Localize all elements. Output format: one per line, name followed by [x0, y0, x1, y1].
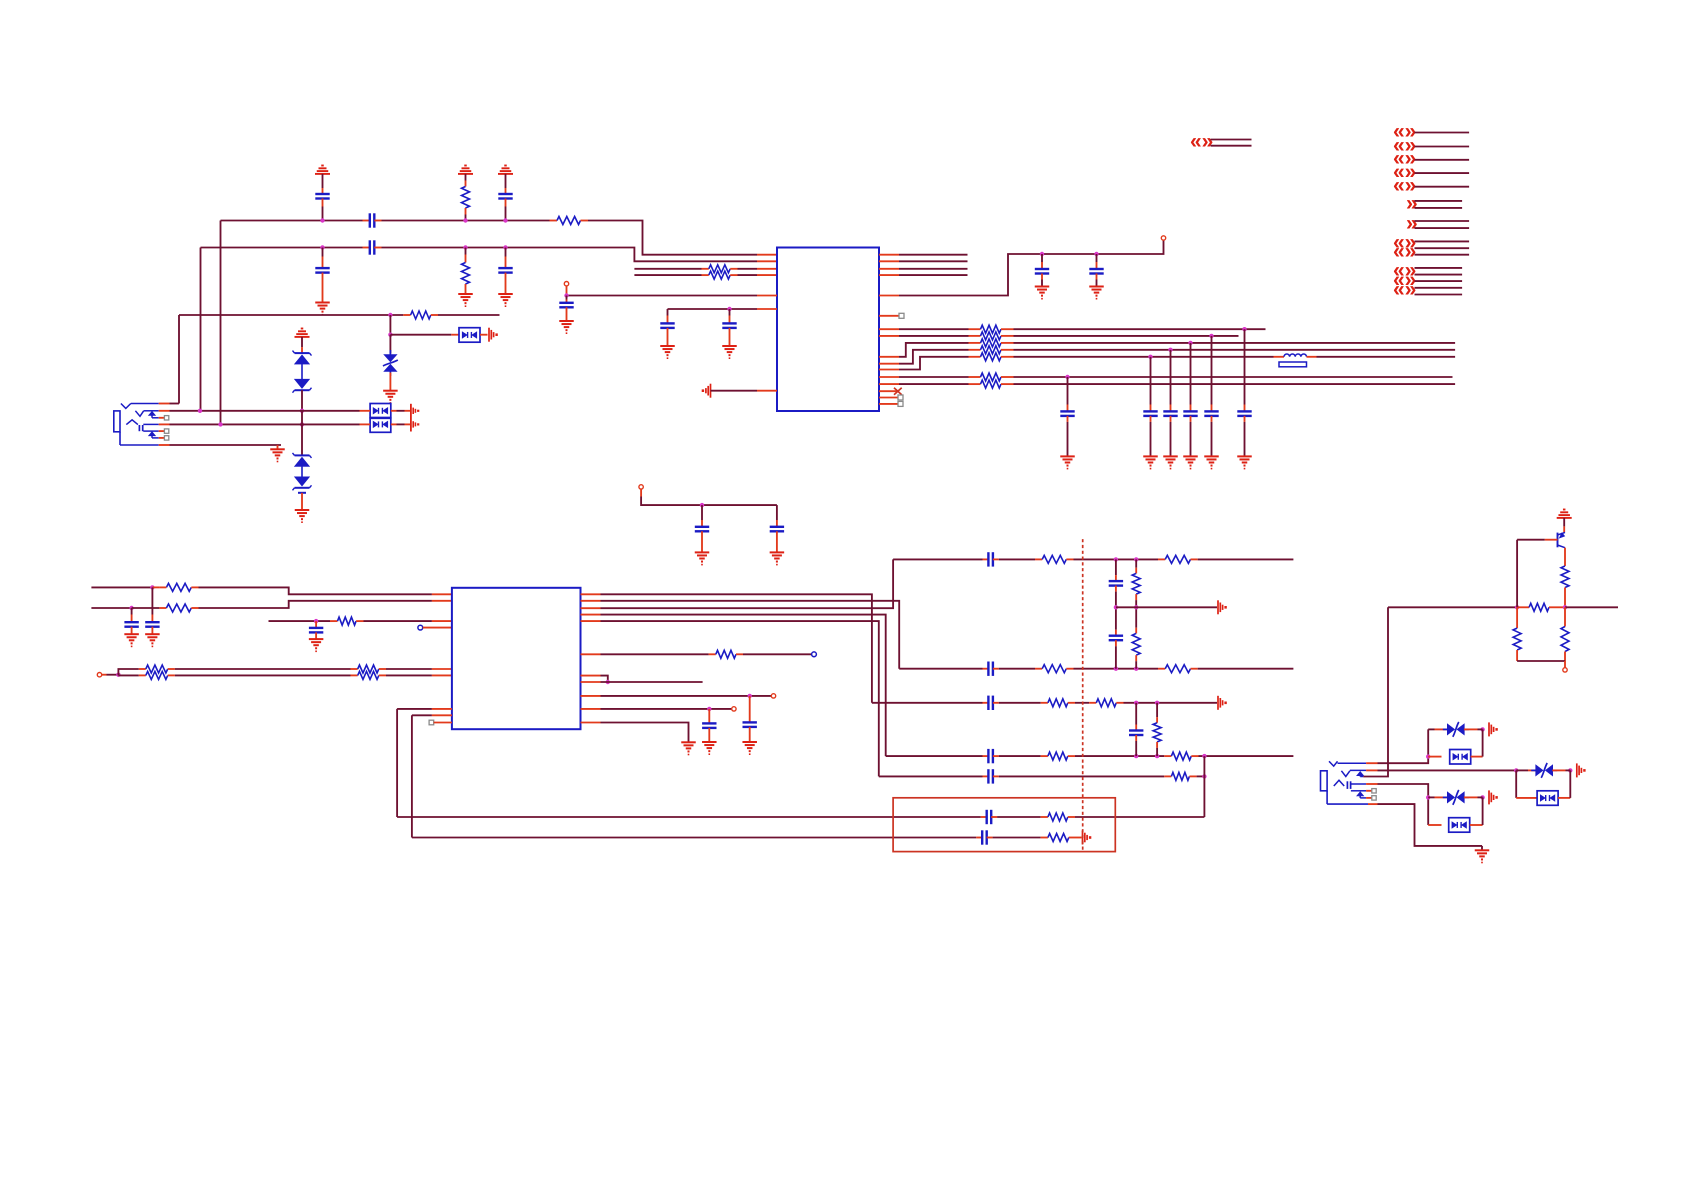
pin stub U2 L2: [432, 600, 452, 602]
ground bar E1: [1218, 600, 1227, 614]
esd diode D11: [1516, 770, 1570, 805]
jack J2 ring contact: [1334, 780, 1366, 789]
junction: [1209, 334, 1213, 338]
junction: [1114, 667, 1118, 671]
op-amp U2 DAC IC: [452, 588, 581, 729]
junction: [300, 422, 304, 426]
junction: [388, 313, 392, 317]
ground bar G2: [1478, 722, 1498, 736]
ground Bd1211: [1204, 456, 1219, 468]
wire port 220: [1415, 220, 1470, 222]
pin stub Q1 base: [1545, 539, 1558, 541]
node VDD pin: [1161, 236, 1165, 240]
resistor R36: [1561, 548, 1569, 608]
wire port 227: [1415, 227, 1470, 229]
pin stub U1 right 260.8: [879, 260, 899, 262]
junction: [1134, 754, 1138, 758]
node VREF pin: [564, 282, 568, 296]
wire row2 to U1 pin: [382, 248, 758, 262]
resistor R35: [1041, 834, 1077, 842]
wire bus R8 a: [899, 335, 969, 337]
wire rowc b: [175, 668, 351, 670]
resistor R24: [1158, 665, 1198, 673]
wire U1 out 274.6: [899, 274, 968, 276]
power symbol VCC G1: [1557, 510, 1572, 533]
wire fb row1: [397, 816, 981, 818]
wire row1 mid: [382, 220, 550, 222]
port P280: [1393, 259, 1416, 301]
ground A6: [498, 294, 513, 306]
pin stub U1 right 403.4: [879, 403, 899, 405]
wire port 280.6: [1415, 280, 1463, 282]
no-connect square J1 b: [164, 429, 168, 433]
wire fb row1 c: [1075, 816, 1204, 818]
capacitor C15 series: [983, 552, 999, 566]
pin stub U2 L3: [432, 620, 452, 622]
no-connect square J1 c: [164, 436, 168, 440]
zener diode D5: [293, 453, 312, 467]
capacitor C27: [695, 505, 709, 552]
tvs diode D2: [383, 335, 398, 391]
wire micbias: [269, 620, 331, 622]
capacitor C8: [660, 309, 674, 346]
wire aux1: [601, 695, 772, 697]
ground Bd1190: [1183, 456, 1198, 468]
no-connect square U1 c: [898, 401, 903, 406]
wire port 132: [1415, 132, 1470, 134]
resistor R39: [1561, 607, 1569, 661]
resistor R26: [1132, 607, 1140, 668]
ground bar E6: [1077, 831, 1092, 845]
resistor R11: [969, 353, 1014, 361]
capacitor C25 series: [981, 810, 997, 824]
port P200: [1406, 192, 1418, 215]
resistor R27: [1041, 699, 1075, 707]
junction: [320, 245, 324, 249]
wire tvs stack v: [301, 411, 303, 456]
pin stub U2 L5: [432, 674, 452, 676]
resistor R30: [1164, 752, 1198, 760]
junction: [463, 245, 467, 249]
pin stub U1 right 376.5: [879, 376, 899, 378]
wire line3: [634, 268, 701, 270]
no-connect square J1 a: [164, 416, 168, 420]
ground E3: [742, 742, 757, 754]
no-connect square U1 b: [898, 395, 903, 400]
capacitor C24: [702, 709, 716, 742]
zener diode D3: [293, 351, 312, 365]
capacitor C13: [145, 587, 159, 634]
node aux1 pin: [771, 694, 775, 698]
pin stub U1 right 363.2: [879, 363, 899, 365]
node nCS pin: [418, 625, 452, 630]
junction: [707, 707, 711, 711]
resistor R1: [462, 187, 470, 221]
jack J1 switch arrow 2: [149, 432, 159, 438]
wire F mid: [1116, 606, 1217, 608]
wire fb row2: [412, 837, 976, 839]
resistor R18: [351, 665, 387, 673]
wire agnd: [711, 390, 758, 392]
svg-text:«»: «»: [1190, 130, 1213, 153]
tvs diode D8: [1428, 722, 1477, 737]
wire aux2: [601, 708, 732, 710]
pin stub U1 right 397: [879, 397, 899, 399]
wire hp sense: [601, 653, 709, 655]
power symbol VCC A1: [315, 166, 330, 195]
resistor R25: [1132, 559, 1140, 607]
pin stub U2 L6: [432, 708, 452, 710]
resistor R8: [969, 332, 1014, 340]
pin stub U2 right 675.1: [581, 675, 601, 677]
junction: [1202, 774, 1206, 778]
wire F3 c: [1075, 702, 1089, 704]
ground A4: [315, 303, 330, 315]
wire line4: [634, 274, 701, 276]
wire fb row2 b: [993, 837, 1041, 839]
wire hp sense b: [743, 653, 812, 655]
junction: [1514, 768, 1518, 772]
resistor R12: [969, 373, 1014, 381]
pin stub U1 right 295: [879, 295, 899, 297]
resistor R5: [702, 271, 738, 279]
zener diode D4: [293, 364, 312, 411]
capacitor Cd1067: [1060, 377, 1074, 456]
wire F5 a: [879, 775, 983, 777]
wire U2 out1: [601, 594, 872, 703]
wire bias to J2: [1363, 607, 1388, 776]
wire F5 c: [1197, 775, 1205, 777]
junction: [1114, 605, 1118, 609]
wire Q1 left v: [1516, 540, 1518, 608]
ground B1: [559, 321, 574, 333]
jack J1 ring contact: [126, 420, 158, 431]
ground B2: [660, 346, 675, 358]
junction: [150, 585, 154, 589]
junction: [503, 245, 507, 249]
ground A5: [458, 294, 473, 306]
capacitor Cd1244: [1237, 329, 1251, 456]
wire bus R12 a: [899, 376, 969, 378]
jack J2 ring line2: [1351, 790, 1366, 792]
capacitor C5: [315, 248, 329, 303]
wire bias row b: [1565, 606, 1618, 608]
wire J1 sleeve: [170, 444, 282, 446]
junction: [727, 307, 731, 311]
junction: [1155, 701, 1159, 705]
pin stub U1 IN1: [757, 254, 777, 256]
wire F3 b: [999, 702, 1041, 704]
junction: [1202, 754, 1206, 758]
capacitor Cd1170: [1163, 350, 1177, 457]
resistor R22: [1158, 555, 1198, 563]
junction: [1563, 605, 1567, 609]
pin stub U2 right 593.8: [581, 593, 601, 595]
junction: [388, 333, 392, 337]
wire port NE1 b: [1211, 145, 1252, 147]
pin stub U2 right 653.8: [581, 653, 601, 655]
ground D3g: [309, 639, 324, 651]
pin stub J2 tip: [1366, 762, 1377, 764]
wire fb2 v: [411, 715, 413, 837]
ground G5: [1475, 846, 1490, 863]
wire F2 b: [999, 668, 1035, 670]
wire port 200: [1415, 200, 1463, 202]
wire esd gnd a: [391, 410, 411, 412]
wire rowb to U2: [199, 601, 432, 608]
wire bus R10 b: [1014, 349, 1456, 351]
wire bus R12 b: [1014, 376, 1453, 378]
pin stub U1 left 295: [757, 295, 777, 297]
jack J2 switch arrow 1: [1357, 772, 1364, 777]
capacitor C11: [1089, 254, 1103, 287]
power symbol VCC A3: [498, 166, 513, 195]
wire fb2 a: [412, 714, 432, 716]
port P186.2: [1393, 174, 1416, 197]
pin stub U1 right 356.3: [879, 356, 899, 358]
esd diode D1: [451, 328, 487, 343]
capacitor C12: [124, 608, 138, 634]
wire F5 b: [999, 775, 1165, 777]
junction: [748, 694, 752, 698]
annotation dashed line: [1082, 539, 1084, 851]
junction: [1188, 341, 1192, 345]
junction: [1065, 375, 1069, 379]
ground Bd1244: [1237, 456, 1252, 468]
pin stub J2 ring: [1366, 783, 1377, 785]
capacitor C19 series: [983, 696, 999, 710]
wire micbias b: [364, 620, 432, 622]
resistor R13: [969, 380, 1014, 388]
node VDD2 pin: [639, 485, 643, 497]
resistor R10: [969, 346, 1014, 354]
wire F1 c: [1074, 558, 1159, 560]
wire F2 c: [1074, 668, 1159, 670]
wire bus R10 a: [899, 350, 969, 364]
wire vref: [567, 295, 758, 297]
wire esd branch v: [389, 315, 391, 335]
capacitor C20 series: [983, 749, 999, 763]
wire F1 d: [1198, 558, 1294, 560]
junction: [198, 409, 202, 413]
wire port 267.4: [1415, 267, 1463, 269]
node sense pin: [812, 652, 817, 657]
resistor R29: [1041, 752, 1075, 760]
wire bus R11 c: [1317, 356, 1456, 358]
audio jack J1 body: [114, 411, 120, 432]
pin stub U1 left 390: [757, 390, 777, 392]
wire J2 sleeve gnd: [1378, 804, 1483, 846]
junction: [1134, 605, 1138, 609]
wire bus R11 a: [899, 357, 969, 370]
ground E4: [702, 742, 717, 754]
capacitor C7: [559, 296, 573, 322]
jack J2 sleeve: [1327, 791, 1368, 804]
port P172.6: [1393, 161, 1416, 184]
wire row1 to U1 pin: [588, 221, 757, 255]
junction: [1568, 768, 1572, 772]
jack J1 switch arrow 1: [149, 411, 159, 418]
wire port 287.3: [1415, 287, 1463, 289]
pin stub U1 right 390.7: [879, 390, 899, 392]
port P220: [1406, 212, 1418, 235]
ground E5: [681, 742, 696, 754]
tvs diode D10: [1516, 763, 1565, 778]
zener diode D6: [293, 466, 312, 510]
wire bus R9 a: [899, 343, 969, 357]
wire U1 out 260.8: [899, 260, 968, 262]
capacitor C3 series: [363, 213, 382, 227]
power symbol VCC A9: [295, 329, 310, 354]
wire F2 a: [899, 668, 982, 670]
wire line3b: [738, 268, 758, 270]
ground D5g: [770, 552, 785, 564]
resistor R28: [1089, 699, 1123, 707]
wire row3: [179, 314, 403, 316]
resistor R14: [152, 583, 198, 591]
ground bar G3: [1566, 763, 1586, 777]
junction: [564, 293, 568, 297]
pin stub U1 right 274.6: [879, 274, 899, 276]
jack J2 tip contact: [1329, 761, 1366, 766]
capacitor C6: [498, 248, 512, 295]
wire fb row1 b: [997, 816, 1041, 818]
pin stub U2 L4: [432, 668, 452, 670]
junction: [463, 218, 467, 222]
pin stub U1 right 328.7: [879, 328, 899, 330]
ground B5: [1035, 287, 1050, 299]
wire vertical jack A: [178, 315, 180, 404]
pin stub U1 right 268.3: [879, 268, 899, 270]
pin stub J1 sw2: [159, 437, 165, 439]
junction: [1134, 667, 1138, 671]
junction: [1155, 754, 1159, 758]
capacitor C23: [743, 696, 757, 742]
node bias pin: [1563, 661, 1567, 672]
ground bar B4: [702, 384, 711, 398]
wire bus R7 a: [899, 328, 969, 330]
jack J1 tip contact: [121, 404, 159, 409]
pin stub U2 L7: [432, 714, 452, 716]
junction: [1114, 557, 1118, 561]
ground bar G4: [1478, 790, 1498, 804]
pin stub U2 right 681.5: [581, 681, 601, 683]
pin stub U1 right 315.3: [879, 315, 899, 317]
junction: [1134, 557, 1138, 561]
no-connect square U1 a: [899, 313, 904, 318]
capacitor C1: [315, 194, 329, 221]
pin stub J1 sw1: [159, 417, 165, 419]
wire row1 left: [221, 220, 363, 222]
resistor R17: [139, 665, 175, 673]
wire row B: [170, 410, 360, 412]
ground A11: [270, 445, 285, 462]
junction: [700, 503, 704, 507]
wire line4b: [738, 274, 758, 276]
wire Q1 bottom: [1517, 660, 1565, 662]
junction: [116, 673, 120, 677]
jack J1 contact2: [135, 411, 158, 417]
pin stub U2 right 620.6: [581, 620, 601, 622]
resistor R2: [550, 217, 589, 225]
capacitor C4 series: [363, 240, 382, 254]
resistor R20: [351, 671, 387, 679]
junction: [1426, 754, 1430, 758]
pin stub U1 right 254.2: [879, 254, 899, 256]
resistor R32: [1164, 772, 1196, 780]
wire rowa to U2: [199, 587, 432, 594]
junction: [314, 619, 318, 623]
wire U2 out3: [601, 559, 894, 608]
no-connect square J2 a: [1372, 789, 1376, 793]
resistor R38: [1513, 607, 1521, 661]
pin stub U1 IN3: [757, 268, 777, 270]
resistor R31: [1153, 703, 1161, 756]
junction: [1515, 605, 1519, 609]
wire rowb left: [91, 607, 131, 609]
wire port 186.2: [1415, 186, 1470, 188]
wire bias: [668, 308, 758, 310]
node aux2 pin: [732, 707, 736, 711]
wire bus R9 b: [1014, 342, 1456, 344]
wire bus R13 b: [1014, 383, 1456, 385]
pin stub U2 right 695.4: [581, 695, 601, 697]
pin stub J1 b: [159, 430, 165, 432]
wire bus R8 b: [1014, 335, 1239, 337]
no-connect square U2: [429, 720, 434, 725]
pin stub U2 L8: [434, 722, 452, 724]
transistor Q1: [1558, 532, 1566, 547]
pin stub U1 IN4: [757, 274, 777, 276]
pin stub U2 right 614.1: [581, 614, 601, 616]
pin stub J1 c2: [159, 410, 170, 412]
pin stub J1 sleeve: [159, 444, 170, 446]
wire J2 tip to esd: [1378, 729, 1429, 763]
wire port 274.1: [1415, 274, 1463, 276]
ground D4g: [695, 552, 710, 564]
wire out jog: [601, 676, 608, 682]
wire to esd D1: [390, 334, 451, 336]
wire cd in: [107, 674, 119, 676]
no-connect X U1: [894, 388, 902, 395]
capacitor C16 series: [983, 662, 999, 676]
resistor R23: [1035, 665, 1074, 673]
ground D2g: [145, 634, 160, 646]
wire fb1 a: [397, 708, 432, 710]
wire port 254.2: [1415, 254, 1470, 256]
capacitor Cd1150: [1143, 357, 1157, 457]
wire VDD net: [899, 240, 1164, 295]
wire U2 gnd: [601, 723, 689, 743]
pin stub J2 sw2: [1366, 797, 1372, 799]
wire F2 d: [1198, 668, 1294, 670]
junction: [218, 422, 222, 426]
inductor L1 ferrite: [1274, 354, 1317, 367]
resistor R19: [139, 671, 175, 679]
esd diode D9: [1428, 729, 1482, 764]
wire port NE1 a: [1211, 139, 1252, 141]
pin stub U2 right 708.4: [581, 708, 601, 710]
pin stub U1 left 308: [757, 308, 777, 310]
capacitor Cd1190: [1183, 343, 1197, 457]
pin stub J2 c2: [1366, 769, 1377, 771]
junction: [1480, 727, 1484, 731]
capacitor C10: [1035, 254, 1049, 287]
wire vertical jack B: [200, 248, 202, 411]
ground B3: [722, 346, 737, 358]
pin stub: [360, 423, 371, 425]
resistor R4: [702, 265, 738, 273]
